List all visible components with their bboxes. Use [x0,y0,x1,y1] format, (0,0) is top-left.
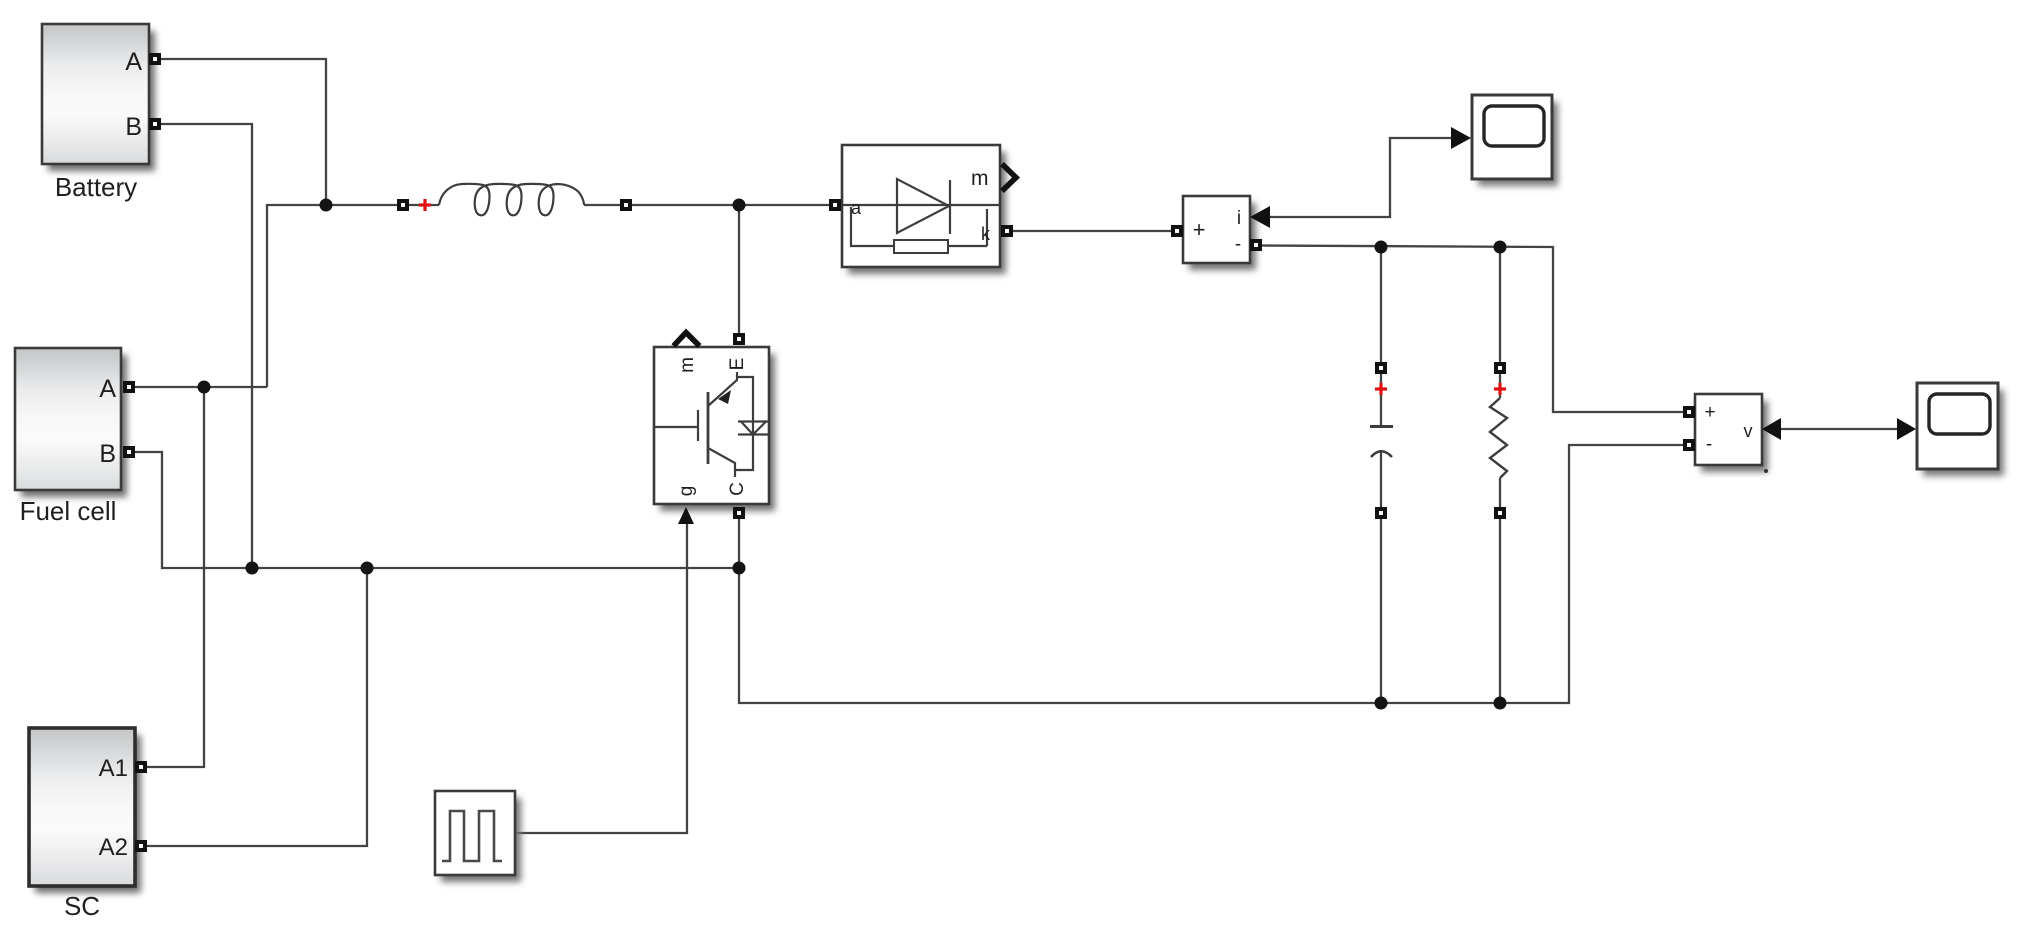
wire: resistor mid leads [1499,374,1501,507]
port: Fuel cell B [123,446,135,458]
IGBT m output chevron [674,333,700,347]
port: Battery B [149,118,161,130]
port: diode k output [1001,225,1013,237]
node: battery A junction [320,199,333,212]
svg-text:B: B [125,113,142,141]
pulse generator block [435,791,521,882]
wire: current i output to Scope [1268,138,1452,217]
IGBT block [654,347,775,511]
current measurement block [1183,196,1256,270]
scope 2 input arrowhead [1897,418,1916,440]
wire: resistor branch bottom [1499,519,1501,703]
wire: bottom return bus [739,445,1684,703]
IGBT emitter arrow [718,390,731,404]
wire: IGBT C down to bus [738,519,740,568]
wire: Fuel cell A to riser [135,386,267,388]
svg-text:C: C [727,482,748,496]
IGBT internals [655,372,769,477]
IGBT g input arrowhead [678,507,694,524]
node: resistor bottom [1494,697,1507,710]
scope 2 (voltage) [1917,383,2004,476]
diode internals [843,179,999,253]
wire: capacitor branch top [1380,247,1382,362]
wire: resistor branch top [1499,247,1501,362]
port: SC A1 [135,761,147,773]
wire: lower-left bus fuel B [135,452,739,568]
wire: Battery A to top node [135,59,1898,846]
port: IGBT C bottom [733,507,745,519]
svg-text:v: v [1744,421,1753,441]
svg-text:m: m [971,167,989,190]
wire: top wire + segment before coil [409,204,439,206]
scope 1 input arrowhead [1451,127,1471,149]
node: IGBT C on bus [733,562,746,575]
label: stray dot [1764,469,1768,473]
node: capacitor top [1375,241,1388,254]
svg-text:A: A [99,375,116,403]
wire: inductor right port to diode a [632,204,830,206]
SC supercapacitor subsystem [29,728,141,921]
svg-text:Battery: Battery [55,172,137,202]
label: capacitor + polarity [1375,383,1387,395]
svg-text:A: A [125,48,142,76]
node: resistor top [1494,241,1507,254]
svg-text:k: k [981,224,991,244]
port: resistor top [1494,362,1506,374]
wire: current - output bus to V+ [1262,246,1684,413]
svg-text:g: g [676,486,697,497]
wire: riser fuel A to top wire [267,205,398,387]
wire: coil right lead to right port [584,204,620,206]
battery subsystem Battery [42,24,155,202]
port: voltage - input [1683,439,1695,451]
wire: Battery B down to lower bus [161,124,252,568]
node: capacitor bottom [1375,697,1388,710]
node: battery B on bus [246,562,259,575]
svg-text:i: i [1237,208,1241,229]
port: SC A2 [135,840,147,852]
svg-text:E: E [727,358,748,371]
port: capacitor top [1375,362,1387,374]
pulse waveform glyph [442,811,502,861]
wire: pulse generator to IGBT g [515,524,687,833]
resistor R [1490,398,1507,478]
port: inductor left [397,199,409,211]
wire: capacitor mid leads [1380,374,1382,507]
scope 1 (current) [1472,95,1558,186]
wire: node to IGBT E port [738,205,740,334]
label: resistor + polarity [1494,383,1506,395]
port: voltage + input [1683,406,1695,418]
node: SC A2 on bus [361,562,374,575]
svg-text:A2: A2 [99,834,128,861]
inductor L [439,184,584,215]
capacitor C [1370,427,1393,458]
svg-text:Fuel cell: Fuel cell [20,496,117,526]
svg-text:m: m [677,357,698,373]
svg-text:+: + [1193,217,1206,242]
label: inductor + polarity [419,199,431,211]
port: current + input [1171,225,1183,237]
node: IGBT E / diode junction [733,199,746,212]
wire: SC A1 up to fuel A node [147,387,204,767]
port: inductor right [620,199,632,211]
fuel cell subsystem [15,348,127,526]
wire: V output to Scope1 [1779,428,1898,430]
port: capacitor bottom [1375,507,1387,519]
wire: SC A2 up to lower bus [147,568,367,846]
port: diode a input [829,199,841,211]
svg-text:-: - [1235,234,1241,255]
svg-text:A1: A1 [99,755,128,782]
voltage v output arrowhead [1762,418,1781,440]
wire: diode k to current + [1013,230,1171,232]
port: resistor bottom [1494,507,1506,519]
node: fuel A / SC A1 junction [198,381,211,394]
svg-text:-: - [1706,434,1712,455]
port: current - output [1250,239,1262,251]
svg-text:a: a [851,198,862,218]
svg-text:+: + [1704,402,1715,423]
port: IGBT E top [733,333,745,345]
svg-text:SC: SC [64,891,100,921]
diode m output chevron [1002,164,1016,191]
wire: capacitor branch bottom [1380,519,1382,703]
current i output arrowhead [1250,206,1270,228]
diode block [842,145,1006,274]
voltage measurement block [1695,394,1768,472]
port: Fuel cell A [123,381,135,393]
port: Battery A [149,53,161,65]
svg-text:B: B [99,440,116,468]
